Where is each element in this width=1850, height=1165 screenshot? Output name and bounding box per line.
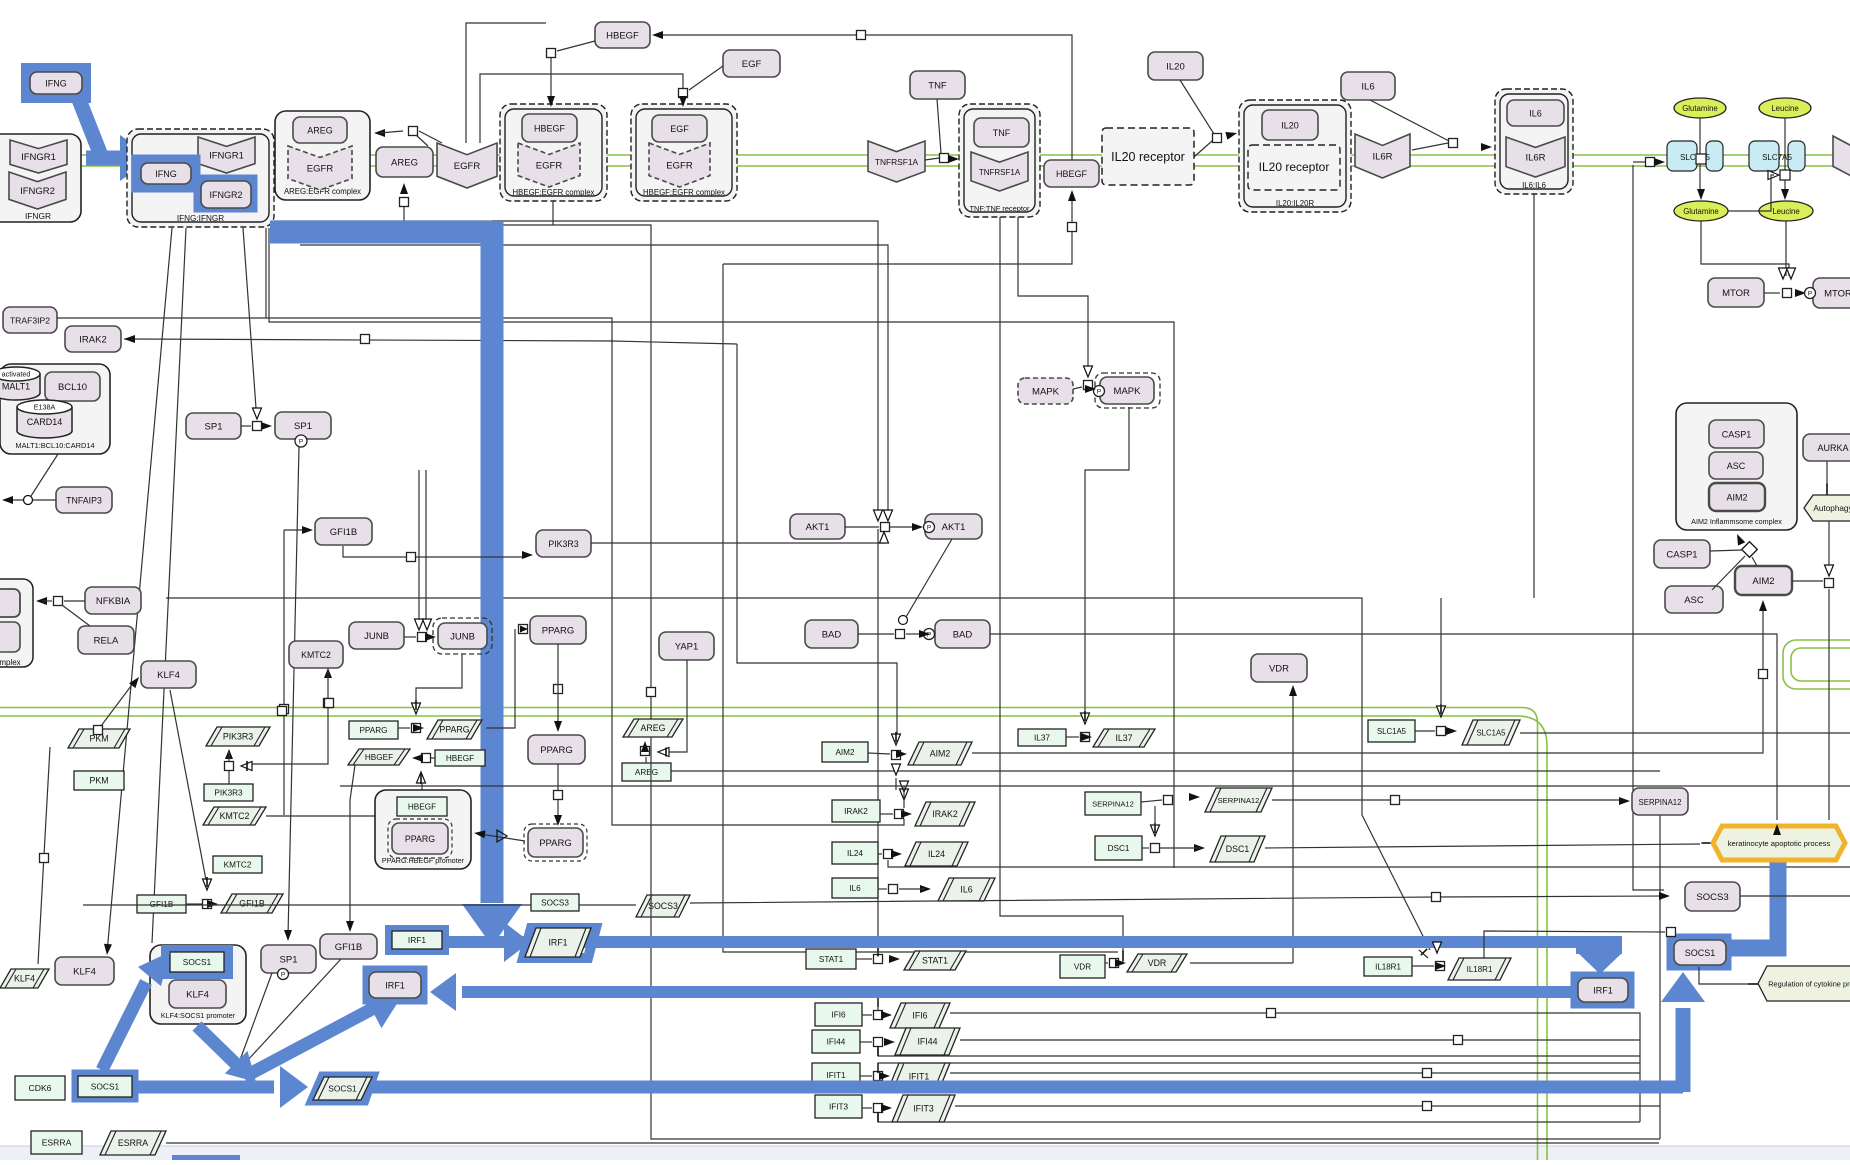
protein SP1 P <box>275 412 331 439</box>
svg-text:PKM: PKM <box>89 734 108 744</box>
svg-text:TRAF3IP2: TRAF3IP2 <box>10 315 50 325</box>
protein SP1 <box>186 413 241 439</box>
gene ESRRA g <box>31 1131 82 1154</box>
rna KMTC2 p <box>203 807 266 825</box>
wire Glutamine to MTOR <box>1701 221 1789 276</box>
svg-text:mplex: mplex <box>0 658 21 667</box>
reaction KMTC2 in <box>324 668 332 678</box>
protein MAPK <box>1018 378 1073 404</box>
wire PPARG to promoter complex <box>480 834 525 841</box>
svg-text:IL20:IL20R: IL20:IL20R <box>1276 199 1315 208</box>
protein IL20 in complex <box>1262 110 1318 140</box>
protein MTOR <box>1708 278 1764 307</box>
blue frame IRF1 p <box>523 928 596 958</box>
wire SLC collector <box>1633 165 1664 890</box>
reaction HBEGF transcription <box>422 754 431 763</box>
svg-text:SOCS1: SOCS1 <box>183 957 212 967</box>
scrollbar piece <box>172 1155 240 1160</box>
complex IL20:IL20R <box>1239 100 1351 212</box>
svg-text:KLF4: KLF4 <box>73 966 96 977</box>
rna IRF1 p <box>525 928 591 957</box>
complex NFkB left <box>0 579 33 667</box>
svg-text:IL6:IL6: IL6:IL6 <box>1522 181 1546 190</box>
blue frame IRF1 g <box>390 930 444 950</box>
reaction BAD phosphorylation <box>896 630 905 639</box>
svg-text:HBEGF: HBEGF <box>1056 169 1088 179</box>
svg-text:IRAK2: IRAK2 <box>932 809 958 819</box>
protein HBEGF 2 <box>1044 160 1099 187</box>
protein IL20 <box>1148 52 1203 80</box>
svg-text:AREG: AREG <box>641 723 666 733</box>
svg-text:SP1: SP1 <box>280 954 298 965</box>
protein IFNG in complex <box>141 163 191 184</box>
wire IFIT3 line <box>955 1105 1660 1107</box>
receptor TNFRSF1A <box>868 141 925 182</box>
svg-text:AKT1: AKT1 <box>806 522 830 533</box>
wire AIM2p to AIM2 <box>972 603 1763 753</box>
wire HBEGF from below <box>723 232 1072 264</box>
protein SOCS1 pink <box>1674 940 1726 965</box>
gene PIK3R3 g <box>204 784 253 801</box>
green compartment bottom right <box>1783 640 1850 689</box>
rna IFIT3 p <box>892 1095 955 1122</box>
svg-text:IFI6: IFI6 <box>831 1011 846 1020</box>
protein TNFAIP3 <box>56 487 112 513</box>
rna AREG p <box>623 719 683 737</box>
svg-text:PPARG: PPARG <box>439 725 469 735</box>
svg-text:IRAK2: IRAK2 <box>844 807 868 816</box>
svg-text:AREG: AREG <box>391 157 418 168</box>
svg-text:TNFRSF1A: TNFRSF1A <box>979 168 1021 177</box>
complex PPARG:HBEGF promoter <box>375 790 471 869</box>
protein VDR <box>1251 654 1307 682</box>
svg-text:MALT1:BCL10:CARD14: MALT1:BCL10:CARD14 <box>15 441 94 450</box>
gene DSC1 g <box>1095 836 1142 860</box>
svg-text:EGFR: EGFR <box>307 163 334 174</box>
svg-text:CASP1: CASP1 <box>1722 429 1752 439</box>
reaction JUNB <box>418 633 427 642</box>
svg-text:IL20: IL20 <box>1281 120 1299 130</box>
svg-text:MALT1: MALT1 <box>2 382 30 392</box>
svg-text:HBGEF: HBGEF <box>365 753 393 762</box>
gene HBEGF in promoter <box>397 797 447 816</box>
complex AREG:EGFR <box>275 111 370 200</box>
svg-text:CARD14: CARD14 <box>27 417 63 427</box>
metabolite Glutamine top <box>1674 98 1726 118</box>
svg-text:IFNGR2: IFNGR2 <box>209 190 242 200</box>
P circle AKT1 <box>924 522 935 533</box>
rna IL37 p <box>1093 729 1155 747</box>
process on PKM <box>94 726 103 735</box>
protein IL6 in complex <box>1507 100 1564 126</box>
protein PPARG <box>530 616 586 644</box>
complex MALT1:BCL10:CARD14 <box>0 364 110 454</box>
wire route x612 <box>612 339 904 825</box>
receptor EGFR in EGF complex <box>649 143 710 187</box>
blue frame SOCS1 g <box>77 1075 133 1097</box>
svg-text:SOCS3: SOCS3 <box>648 901 678 911</box>
protein IFNG <box>30 72 82 94</box>
wire SP1P down <box>288 447 299 936</box>
gene IL18R1 g <box>1364 957 1412 976</box>
wire y598 route <box>166 598 1430 950</box>
plasma membrane line 1 <box>0 154 1850 156</box>
wire PIK3R3 input <box>343 546 527 557</box>
phenotype Regulation of cytokine production <box>1758 966 1850 1001</box>
P circle MAPK <box>1094 386 1105 397</box>
complex IFNGR shell <box>0 134 81 222</box>
svg-text:SOCS1: SOCS1 <box>328 1084 357 1094</box>
wire x723 down <box>723 264 1118 952</box>
wire MAPKP to IL37 <box>1085 407 1129 712</box>
receptor TNFRSF1A in complex <box>971 152 1028 191</box>
svg-text:IFNGR1: IFNGR1 <box>21 152 56 163</box>
svg-text:AIM2: AIM2 <box>1726 492 1747 502</box>
blue frame SOCS1 p <box>313 1077 372 1100</box>
wire HBGEFp to GFI1B <box>350 765 355 927</box>
wire IFNG diag SP1 <box>243 228 256 408</box>
rna SOCS3 p <box>636 895 690 917</box>
svg-text:IFIT1: IFIT1 <box>826 1071 846 1080</box>
wire ESRRA line <box>166 1142 1659 1144</box>
svg-text:PPARG: PPARG <box>359 726 387 735</box>
svg-text:IL18R1: IL18R1 <box>1467 965 1493 974</box>
svg-text:JUNB: JUNB <box>450 631 475 642</box>
reaction MAPK phosphorylation <box>1084 381 1093 390</box>
crossing squares membrane <box>278 707 287 716</box>
svg-text:IFNGR: IFNGR <box>25 211 51 221</box>
svg-text:Autophagy: Autophagy <box>1813 504 1850 513</box>
svg-text:P: P <box>1808 291 1812 298</box>
protein BCL10 <box>45 372 100 401</box>
receptor IL6R in complex <box>1506 137 1565 177</box>
rna AIM2 p <box>908 742 972 765</box>
gene IL37 g <box>1018 729 1066 746</box>
svg-text:PIK3R3: PIK3R3 <box>223 732 253 742</box>
svg-text:IL6: IL6 <box>960 885 972 895</box>
wire IL18R1 stimulation <box>1484 931 1665 958</box>
svg-text:HBEGF:EGFR complex: HBEGF:EGFR complex <box>513 188 595 197</box>
reaction HBEGF assoc <box>547 49 556 58</box>
wire STAT1 feeder <box>877 529 879 941</box>
svg-text:VDR: VDR <box>1074 963 1091 972</box>
protein HBEGF <box>595 22 650 48</box>
protein IFNGR2 b <box>201 181 251 208</box>
rna GFI1B p <box>221 894 283 913</box>
protein NFKBIA <box>85 587 141 614</box>
protein IRAK2 <box>65 326 121 352</box>
svg-text:HBEGF: HBEGF <box>534 123 566 133</box>
receptor EGFR <box>437 143 497 188</box>
reaction SP1 phosphorylation <box>253 422 262 431</box>
svg-text:EGF: EGF <box>742 59 762 70</box>
complex TNF:TNF receptor <box>959 104 1040 217</box>
gene IFIT1 g <box>812 1063 860 1087</box>
svg-text:P: P <box>281 972 285 979</box>
reaction STAT1 expression <box>874 955 883 964</box>
svg-text:IL20: IL20 <box>1166 61 1185 72</box>
svg-text:SOCS1: SOCS1 <box>91 1082 120 1092</box>
blue frame IFNG <box>27 69 85 97</box>
complex HBEGF:EGFR <box>500 104 607 201</box>
blue diag to IRF1 <box>244 1009 372 1077</box>
svg-text:PIK3R3: PIK3R3 <box>214 789 243 798</box>
svg-text:MAPK: MAPK <box>1114 386 1142 397</box>
svg-text:IL20 receptor: IL20 receptor <box>1111 150 1185 164</box>
svg-text:AREG: AREG <box>307 125 333 135</box>
svg-text:PPARG: PPARG <box>539 838 572 849</box>
svg-text:CDK6: CDK6 <box>29 1083 52 1093</box>
reaction IL37 expression <box>1081 733 1090 742</box>
gene SOCS1 g <box>78 1076 132 1097</box>
wire PPARG bind promoter <box>557 764 559 822</box>
svg-text:YAP1: YAP1 <box>675 641 699 652</box>
protein PPARG in promoter <box>388 819 452 858</box>
svg-text:IL37: IL37 <box>1115 733 1132 743</box>
protein BAD <box>805 620 858 648</box>
svg-text:IL24: IL24 <box>928 849 945 859</box>
wire TRAF3IP2 <box>57 318 612 340</box>
wire SOCS3p to SOCS3 <box>690 896 1664 903</box>
rna SERPINA12 p <box>1205 788 1272 812</box>
wire TNF complex down 2 <box>1018 217 1088 372</box>
receptor IFNGR1 b <box>198 137 255 173</box>
wire HBEGF top route <box>660 35 1072 160</box>
protein YAP1 <box>659 632 714 660</box>
reaction AKT1 phosphorylation <box>881 523 890 532</box>
blue frame SOCS1 promoter <box>166 950 228 974</box>
protein PPARG nuc2 frame <box>524 824 587 861</box>
gene IL24 g <box>832 842 878 864</box>
reaction HBEGF arrow top <box>652 31 663 39</box>
reaction PPARG translate elbow <box>519 625 528 634</box>
svg-text:IFNGR1: IFNGR1 <box>209 150 244 161</box>
svg-text:PPARG:HBEGF promoter: PPARG:HBEGF promoter <box>382 856 465 865</box>
svg-text:IL6R: IL6R <box>1525 152 1545 163</box>
wire Glutamine catalysis <box>1728 175 1774 211</box>
svg-text:ASC: ASC <box>1727 461 1746 471</box>
rna KLF4 p <box>0 969 49 988</box>
reaction IL6 assoc <box>1449 139 1458 148</box>
svg-text:SLC1A5: SLC1A5 <box>1377 727 1407 736</box>
wire IFI6 line <box>950 1013 1640 1122</box>
wire SERPINA12 to protein <box>1272 799 1624 801</box>
protein SOCS3 pink <box>1685 882 1740 911</box>
reaction MTOR activation <box>1764 292 1780 294</box>
svg-text:IL6: IL6 <box>849 884 861 893</box>
svg-text:IFI44: IFI44 <box>827 1038 846 1047</box>
svg-text:GFI1B: GFI1B <box>239 899 265 909</box>
wire IFNGIFNGR down left <box>269 228 1174 868</box>
blue band A IRF1 <box>447 936 1600 948</box>
protein CARD14 <box>17 400 72 438</box>
wire BAD to right <box>990 634 1777 820</box>
reaction VDR expression <box>1110 959 1119 968</box>
svg-text:TNFAIP3: TNFAIP3 <box>66 495 102 505</box>
receptor EGFR in AREG complex <box>288 146 352 190</box>
bottom margin strip <box>0 1146 1850 1160</box>
gene PKM <box>74 771 124 790</box>
svg-text:SOCS3: SOCS3 <box>1696 892 1728 903</box>
reaction GFI1B transcription <box>203 900 212 909</box>
svg-text:AIM2: AIM2 <box>1752 576 1774 587</box>
svg-text:MAPK: MAPK <box>1032 386 1060 397</box>
gene IRAK2 g <box>832 800 880 822</box>
protein KMTC2 <box>289 641 343 668</box>
protein TNF in complex <box>974 118 1029 147</box>
gene SERPINA12 g <box>1085 792 1141 815</box>
metabolite Leucine top <box>1759 98 1811 118</box>
wire IL6IL6 down <box>1533 194 1535 598</box>
reaction IFI6 <box>874 1011 883 1020</box>
svg-text:PKM: PKM <box>89 776 108 786</box>
blue frame SOCS1 pink <box>1672 939 1726 965</box>
reaction IRAK2 arrow <box>124 335 135 343</box>
protein IRF1 2 <box>1578 978 1628 1002</box>
svg-text:TNF: TNF <box>928 80 947 91</box>
reaction AIM2 up arrow <box>1759 600 1767 611</box>
svg-text:CASP1: CASP1 <box>1666 549 1697 560</box>
svg-text:AIM2: AIM2 <box>835 748 855 757</box>
svg-text:IL37: IL37 <box>1034 734 1050 743</box>
wire SLC1A5 input <box>1646 158 1655 167</box>
svg-text:IFI6: IFI6 <box>912 1011 927 1021</box>
svg-text:DSC1: DSC1 <box>1226 844 1250 854</box>
reaction IL6 expression <box>889 885 898 894</box>
svg-text:IRAK2: IRAK2 <box>79 334 106 345</box>
wire PPARG nuclear import <box>557 644 559 727</box>
svg-text:AIM2: AIM2 <box>930 749 951 759</box>
reaction SLC1A5 expression <box>1437 727 1446 736</box>
blue diag promoter down <box>197 1026 238 1066</box>
svg-text:IL6: IL6 <box>1529 108 1542 118</box>
reaction Leucine import <box>1784 118 1786 196</box>
reaction SERPINA12 expression <box>1164 796 1173 805</box>
svg-text:Glutamine: Glutamine <box>1682 104 1718 113</box>
svg-text:P: P <box>927 632 931 639</box>
wire Autophagy down <box>1828 521 1830 566</box>
svg-text:SOCS3: SOCS3 <box>541 899 569 908</box>
protein KLF4 in promoter <box>169 980 226 1008</box>
gene HBEGF g <box>435 750 485 766</box>
wire SLC1A5p right <box>1520 732 1850 734</box>
reaction IL20 assoc <box>1213 134 1222 143</box>
reaction TNF assoc <box>940 154 949 163</box>
reaction AREG transcription <box>645 757 647 763</box>
svg-text:VDR: VDR <box>1148 958 1167 968</box>
svg-text:JUNB: JUNB <box>364 631 389 642</box>
svg-text:HBEGF:EGFR complex: HBEGF:EGFR complex <box>643 188 725 197</box>
wire PKM to KLF4p <box>38 747 50 964</box>
svg-text:SERPINA12: SERPINA12 <box>1092 800 1134 809</box>
svg-text:EGFR: EGFR <box>666 160 693 171</box>
complex IFNG:IFNGR <box>127 129 274 227</box>
blue path IFNG to complex <box>76 92 100 153</box>
protein CASP1 2 <box>1654 540 1710 568</box>
wire IRAK2 input <box>124 339 737 344</box>
wire IFI44 line <box>960 1039 1640 1041</box>
svg-text:RELA: RELA <box>94 635 119 646</box>
svg-text:KLF4: KLF4 <box>157 670 180 681</box>
svg-text:AURKA: AURKA <box>1817 443 1848 453</box>
svg-text:MTOR: MTOR <box>1722 288 1750 299</box>
rna IL6 p <box>938 878 995 901</box>
svg-text:TNF:TNF receptor: TNF:TNF receptor <box>970 204 1030 213</box>
receptor EGFR in HBEGF complex <box>518 143 580 187</box>
svg-text:ESRRA: ESRRA <box>42 1138 72 1148</box>
phenotype Autophagy <box>1804 495 1850 521</box>
receptor IFNGR2 <box>9 172 66 209</box>
reaction KLF4 input <box>98 682 134 730</box>
blue elbow hexagon SOCS1 <box>1731 858 1778 948</box>
P circle SP1 b <box>278 969 289 980</box>
svg-text:DSC1: DSC1 <box>1108 844 1130 853</box>
wire TNF complex down 1 <box>1000 217 1123 953</box>
blue band main <box>270 221 492 244</box>
rna PKM p <box>68 729 130 748</box>
svg-text:HBEGF: HBEGF <box>446 754 474 763</box>
reaction IRAK2 expression <box>895 810 904 819</box>
svg-text:STAT1: STAT1 <box>922 956 948 966</box>
protein IRF1 <box>369 972 421 998</box>
rna IL18R1 p <box>1448 958 1511 980</box>
metabolite Leucine bottom <box>1759 201 1813 221</box>
svg-text:SP1: SP1 <box>205 421 223 432</box>
protein AREG in complex <box>293 117 347 143</box>
svg-text:E138A: E138A <box>34 403 56 412</box>
protein CASP1 in complex <box>1709 420 1764 448</box>
svg-text:AIM2 Inflammsome complex: AIM2 Inflammsome complex <box>1691 517 1782 526</box>
svg-text:SLC7A5: SLC7A5 <box>1762 153 1792 162</box>
rna IRAK2 p <box>915 802 975 826</box>
svg-text:activated: activated <box>2 370 31 379</box>
reaction GFI1B arrow <box>284 529 308 531</box>
receptor receptor right edge <box>1833 136 1850 177</box>
reaction IFIT1 <box>874 1072 883 1081</box>
protein BAD P <box>935 620 990 648</box>
svg-text:EGFR: EGFR <box>536 160 563 171</box>
rna PPARG p <box>427 720 482 739</box>
metabolite Glutamine bottom <box>1674 201 1728 221</box>
receptor IFNGR1 <box>10 140 67 173</box>
svg-text:PPARG: PPARG <box>405 834 435 844</box>
protein TNF <box>910 71 965 99</box>
svg-text:IL20 receptor: IL20 receptor <box>1259 160 1330 174</box>
rna PIK3R3 p <box>206 727 270 746</box>
gene IL6 g <box>832 878 878 898</box>
svg-text:IRF1: IRF1 <box>548 938 567 948</box>
protein TRAF3IP2 <box>3 307 57 333</box>
svg-text:IL18R1: IL18R1 <box>1375 963 1401 972</box>
svg-text:Regulation of cytokine prod: Regulation of cytokine prod <box>1768 980 1850 989</box>
gene CDK6 <box>15 1076 65 1100</box>
svg-text:IFIT3: IFIT3 <box>913 1104 934 1114</box>
protein AIM2 2 <box>1735 566 1792 595</box>
wire IFNGIFNGR to AKT upper <box>274 221 878 512</box>
svg-text:KMTC2: KMTC2 <box>301 650 331 660</box>
svg-text:keratinocyte apoptotic process: keratinocyte apoptotic process <box>1728 839 1831 848</box>
protein HBEGF in complex <box>522 114 577 142</box>
wire AIM2 right <box>1792 580 1823 582</box>
svg-text:P: P <box>927 525 931 532</box>
svg-text:EGF: EGF <box>670 124 689 134</box>
gene IFI6 g <box>815 1003 862 1026</box>
protein PPARG nuc2 <box>528 828 583 857</box>
wire SERPINA collector <box>1659 815 1661 1139</box>
svg-text:KMTC2: KMTC2 <box>220 811 250 821</box>
rna IFIT1 p <box>888 1063 950 1090</box>
nuclear membrane <box>0 708 1538 1161</box>
